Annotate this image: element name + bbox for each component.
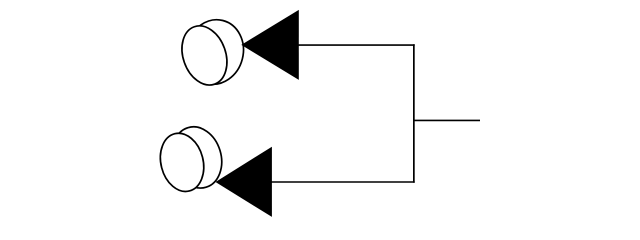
upper transducer: cylinder back/side ellipse <box>179 14 250 91</box>
lower transducer: cylinder front face ellipse <box>154 129 209 197</box>
lower transducer: cylinder back/side ellipse <box>165 121 229 195</box>
wire bus vertical <box>413 44 415 183</box>
wire from lower transducer to bus <box>270 181 415 183</box>
upper transducer: cylinder front face ellipse <box>174 20 234 92</box>
wire from upper transducer to bus <box>297 44 415 46</box>
wire output lead <box>413 119 480 121</box>
upper transducer: cone (solid triangle) <box>241 10 298 80</box>
lower transducer: cone (solid triangle) <box>216 147 272 217</box>
